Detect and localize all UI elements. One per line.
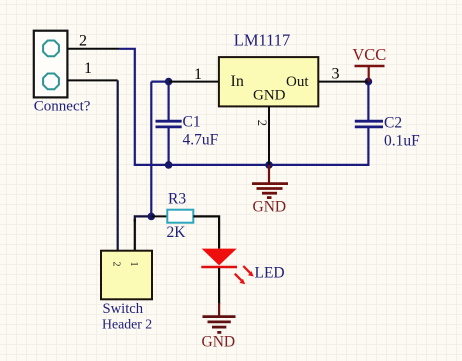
junction dot LM1117 GND at bus [265,161,273,169]
connector pad pin 1 (octagon) [43,74,59,90]
ground mid bar2 [257,187,283,190]
junction dot VCC node [365,78,373,86]
LED D1 triangle [202,249,237,266]
svg-text:Switch: Switch [103,301,144,317]
junction dot R3 input node [148,213,156,221]
R3 right pin and wire to LED [193,216,219,248]
wire C1 top [168,82,170,121]
ground bottom bar3 [212,326,226,329]
resistor R3 body [167,210,193,223]
connector pin 2 line [67,48,119,50]
ground bottom bar2 [208,320,231,323]
svg-text:Connect?: Connect? [34,99,91,115]
LM1117 pin 3 line [318,81,368,83]
svg-text:1: 1 [128,262,139,267]
LM1117 GND pin line [268,106,270,164]
capacitor C2 plates [355,120,383,123]
LED arrow 2 [235,274,242,281]
op U1 LM1117 pin 1 line [169,81,219,83]
junction dot at C1 top tap [165,78,173,86]
svg-text:2: 2 [255,120,269,126]
svg-text:4.7uF: 4.7uF [183,132,219,149]
svg-text:GND: GND [253,87,286,103]
ground bottom bar1 [203,315,236,318]
wire pin2 net: connector pin2 to ground bus to C2 bottom [119,49,368,165]
svg-text:2: 2 [79,33,87,50]
ground mid bar3 [262,192,277,195]
svg-text:C1: C1 [183,114,201,131]
svg-text:GND: GND [253,199,287,216]
power VCC stem [368,66,370,81]
svg-text:1: 1 [84,60,92,77]
capacitor C1 plates [156,120,182,123]
svg-text:LED: LED [255,265,285,282]
svg-text:Out: Out [286,74,309,90]
svg-text:0.1uF: 0.1uF [384,133,420,150]
connector pad pin 2 (octagon) [43,41,59,57]
connector J? body [34,31,68,98]
LED lower pin [218,268,220,304]
wire pin1 down to switch (dark) [117,80,119,250]
wire C2 top from VCC junction [367,82,369,121]
switch S1 body [101,251,152,300]
ground symbol bottom stem [218,303,220,316]
ground symbol mid stem [268,165,270,183]
regulator U1 LM1117 body [219,57,318,106]
svg-text:In: In [231,73,244,90]
wire switch pin2 to R3 junction [135,216,152,222]
ground mid bar4 [267,196,272,199]
svg-text:2K: 2K [167,224,187,241]
switch pin2 black segment [134,219,136,251]
wire LM1117 input net vertical (crosses bus, no junction) [150,82,152,217]
junction dot at C1 bottom on bus [165,161,173,169]
svg-text:C2: C2 [384,115,402,132]
svg-text:R3: R3 [168,191,186,208]
R3 left pin [151,215,167,217]
ground mid bar1 [252,182,288,185]
svg-text:3: 3 [332,66,340,83]
ground bottom bar4 [217,331,221,334]
svg-text:GND: GND [202,334,236,351]
connector pin 1 line [67,79,117,81]
power VCC bar [355,65,385,68]
LED cathode bar [201,266,237,269]
svg-text:1: 1 [194,66,202,83]
svg-text:Header 2: Header 2 [102,317,152,332]
LED arrow 1 [243,266,250,273]
svg-text:2: 2 [111,262,122,267]
svg-text:LM1117: LM1117 [234,31,291,50]
wire C1 bottom [168,127,170,165]
wire input net horizontal to C1 tap [151,80,169,82]
svg-text:VCC: VCC [352,45,386,64]
